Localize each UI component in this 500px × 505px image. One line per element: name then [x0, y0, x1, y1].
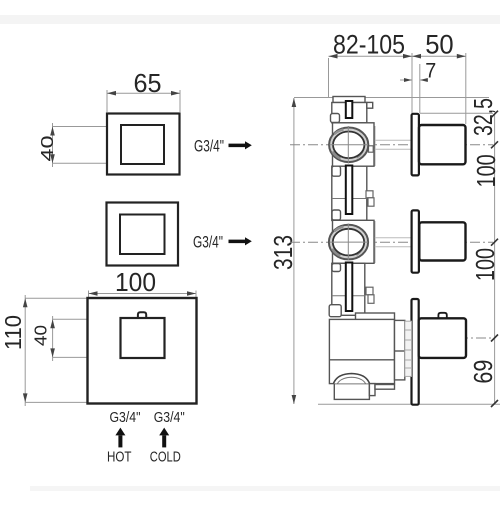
- svg-text:G3/4": G3/4": [194, 137, 224, 156]
- svg-text:G3/4": G3/4": [193, 232, 223, 251]
- svg-text:100: 100: [115, 267, 156, 297]
- svg-text:50: 50: [425, 30, 454, 60]
- svg-text:32,5: 32,5: [468, 98, 498, 136]
- svg-text:HOT: HOT: [107, 449, 132, 465]
- svg-text:40: 40: [37, 135, 57, 161]
- svg-text:G3/4": G3/4": [110, 409, 141, 426]
- svg-text:65: 65: [134, 68, 162, 98]
- svg-text:100: 100: [471, 154, 500, 187]
- svg-text:COLD: COLD: [150, 449, 181, 465]
- svg-text:G3/4": G3/4": [154, 409, 185, 426]
- svg-text:69: 69: [468, 360, 498, 384]
- svg-text:313: 313: [268, 235, 298, 270]
- svg-text:82-105: 82-105: [333, 30, 405, 60]
- svg-text:110: 110: [0, 315, 26, 350]
- svg-text:7: 7: [425, 60, 436, 83]
- svg-text:40: 40: [31, 325, 51, 346]
- svg-text:100: 100: [470, 248, 500, 281]
